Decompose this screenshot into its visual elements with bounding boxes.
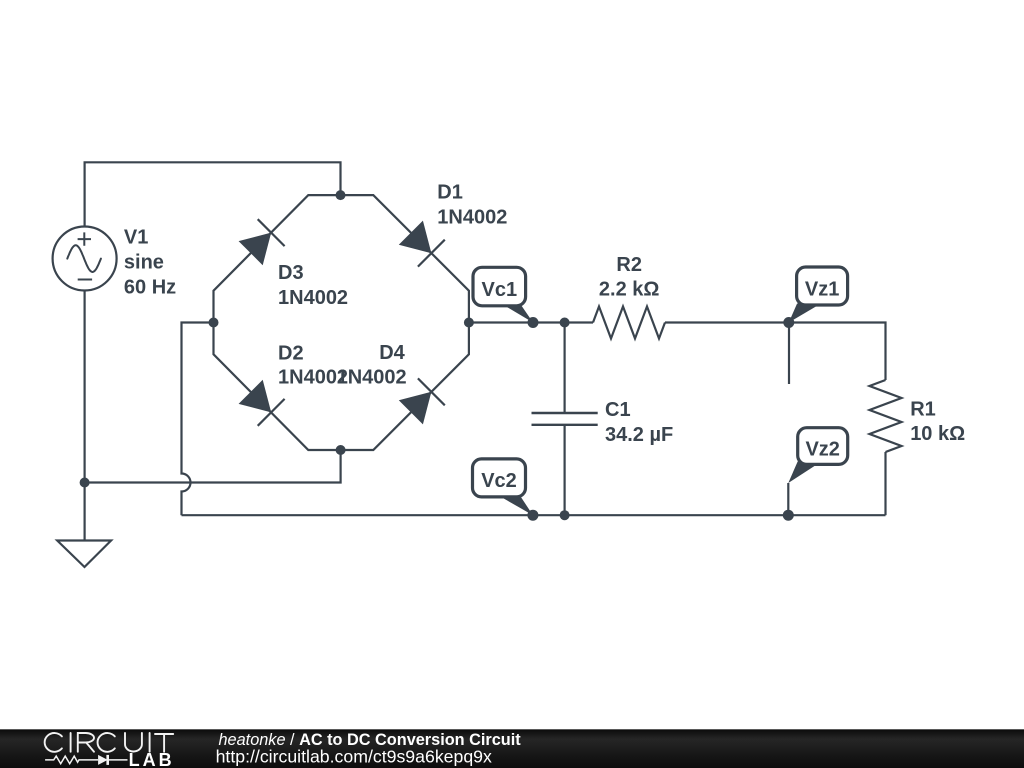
capacitor C1 top wire	[563, 323, 565, 414]
diode D4 bar	[418, 378, 445, 405]
resistor R1 zigzag	[870, 380, 902, 452]
junction dot ground tee	[80, 478, 90, 488]
svg-text:1N4002: 1N4002	[278, 287, 348, 309]
diode D3 triangle	[239, 233, 272, 266]
diode D1 triangle	[399, 221, 432, 254]
logo CIRCUIT stroked letters	[45, 733, 174, 752]
resistor R2 zigzag	[593, 307, 665, 339]
wire R2 to R1 top corner	[665, 323, 886, 381]
V1 plus sign	[78, 232, 91, 245]
svg-text:R2: R2	[616, 254, 642, 276]
diode D2 bar	[258, 399, 285, 426]
wire Vz2 stub	[787, 483, 789, 515]
capacitor C1 bottom wire	[563, 425, 565, 515]
junction dot bridge top	[336, 190, 346, 200]
probe dot Vz2	[783, 510, 794, 521]
V1 source circle	[53, 227, 117, 291]
logo mini circuit	[45, 755, 127, 765]
svg-text:Vz2: Vz2	[805, 438, 839, 460]
svg-text:D3: D3	[278, 262, 304, 284]
logo mini diode	[98, 755, 108, 765]
wire left node down with hop over AC wire	[182, 323, 214, 516]
diode D1 bar	[418, 240, 445, 267]
capacitor C1 plates	[532, 412, 598, 414]
svg-text:D1: D1	[437, 182, 463, 204]
flag Vc2 box	[473, 459, 526, 497]
V1 sine wave	[67, 245, 101, 272]
svg-text:V1: V1	[124, 227, 148, 249]
ground triangle	[57, 541, 111, 568]
diode D3 bar	[258, 219, 285, 246]
junction dot cap bottom	[560, 510, 570, 520]
svg-text:D2: D2	[278, 342, 304, 364]
flag Vz2 box	[798, 428, 848, 465]
flag Vc2 wedge	[499, 496, 533, 516]
bridge octagon wires	[214, 195, 469, 450]
svg-text:Vc2: Vc2	[481, 470, 517, 492]
svg-text:2.2 kΩ: 2.2 kΩ	[599, 278, 660, 300]
svg-text:Vz1: Vz1	[805, 278, 839, 300]
svg-text:1N4002: 1N4002	[437, 207, 507, 229]
wire bottom AC from V1 to bridge bottom	[85, 450, 341, 483]
probe dot Vc2	[527, 510, 538, 521]
flag Vz1 wedge	[789, 304, 821, 323]
svg-text:sine: sine	[124, 252, 164, 274]
junction dot bridge left	[209, 318, 219, 328]
svg-text:LAB: LAB	[129, 750, 175, 768]
svg-text:60 Hz: 60 Hz	[124, 277, 176, 299]
probe dot Vz1	[783, 317, 794, 328]
wire Vz1 stub	[788, 323, 790, 385]
diode D2 triangle	[239, 380, 272, 413]
wire bottom rail	[182, 514, 886, 516]
flag Vz1 box	[797, 267, 848, 305]
wire R1 bottom lead	[884, 452, 886, 515]
flag Vc1 box	[473, 267, 526, 306]
junction dot cap top	[560, 318, 570, 328]
svg-text:1N4002: 1N4002	[337, 367, 407, 389]
wire V1 bottom to ground	[83, 290, 85, 540]
svg-text:C1: C1	[605, 399, 631, 421]
wire right node to R2	[469, 321, 593, 323]
svg-text:D4: D4	[379, 342, 405, 364]
svg-text:Vc1: Vc1	[482, 279, 518, 301]
svg-text:34.2 µF: 34.2 µF	[605, 424, 673, 446]
flag Vc1 wedge	[501, 304, 533, 323]
wire top from V1 to bridge top	[85, 162, 341, 226]
probe dot Vc1	[528, 317, 539, 328]
V1 minus sign	[78, 279, 92, 281]
junction dot bridge right	[464, 318, 474, 328]
footer black bar	[0, 729, 1024, 768]
svg-text:http://circuitlab.com/ct9s9a6k: http://circuitlab.com/ct9s9a6kepq9x	[216, 747, 492, 767]
junction dot bridge bottom	[336, 445, 346, 455]
diode D4 triangle	[399, 392, 432, 425]
svg-text:R1: R1	[910, 399, 936, 421]
svg-text:10 kΩ: 10 kΩ	[910, 423, 965, 445]
flag Vz2 wedge	[788, 461, 821, 483]
